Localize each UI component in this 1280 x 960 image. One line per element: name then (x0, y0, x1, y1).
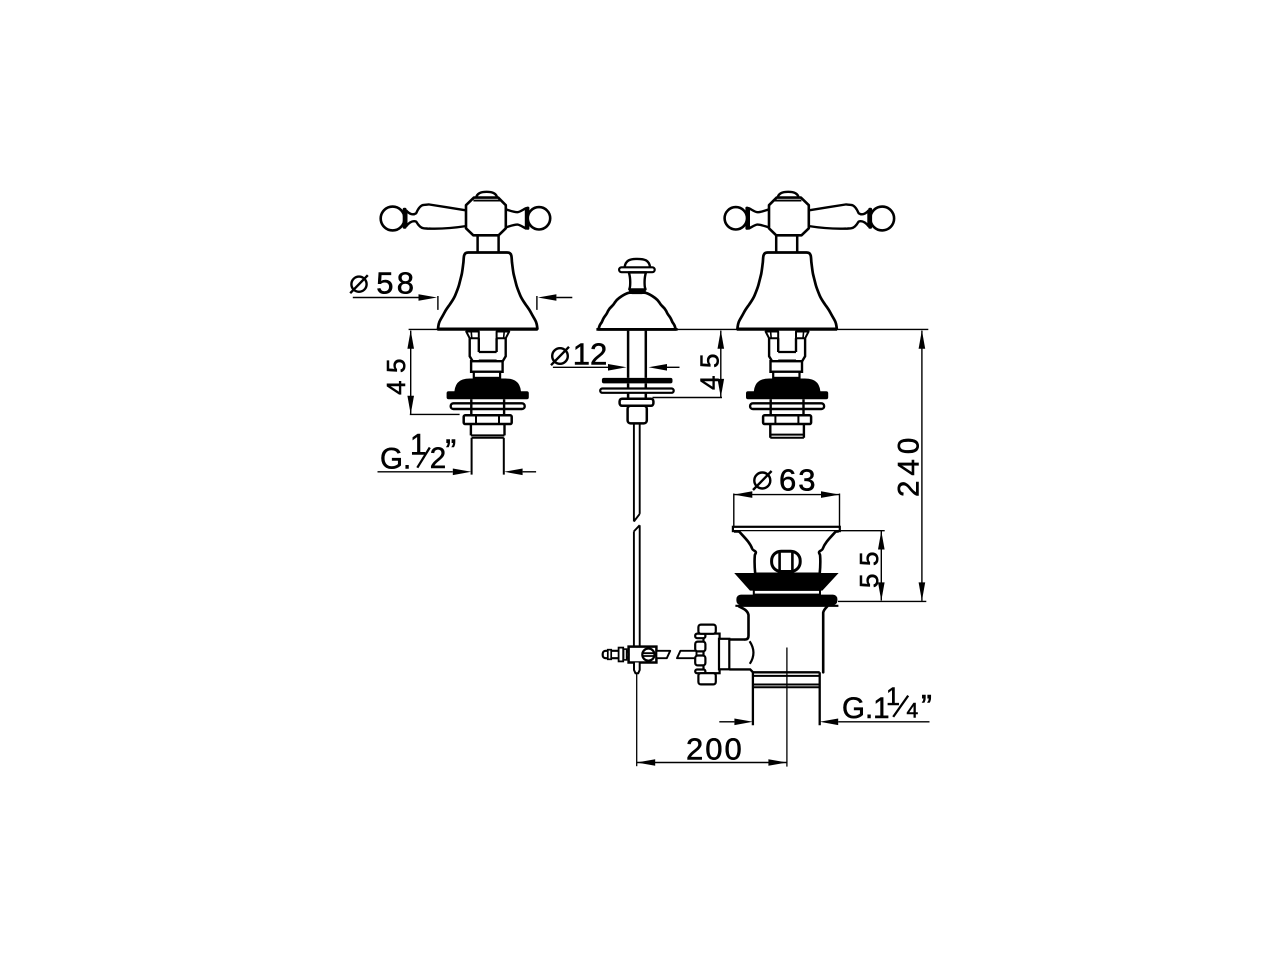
drain washer band (754, 590, 820, 595)
drain gland cylinder (719, 639, 729, 670)
svg-text:12: 12 (573, 337, 607, 372)
overflow window (772, 551, 801, 571)
drain rubber gasket (black) (735, 595, 838, 606)
pop-up rod shank (O12) (628, 331, 646, 399)
left arm spindle (406, 204, 466, 228)
left bell base line (437, 328, 537, 331)
dimension G.1/2 (378, 429, 537, 476)
small ball (725, 207, 747, 229)
right tap handle (mirrored) (725, 192, 895, 253)
lower stem block (471, 361, 503, 372)
rod clamp block (629, 647, 657, 663)
svg-text:58: 58 (376, 266, 417, 301)
dimension 45 middle (653, 330, 725, 397)
left collar ring (403, 208, 407, 229)
drain knurled nut (695, 625, 719, 685)
handle neck (776, 236, 797, 253)
right ball (528, 207, 550, 229)
hub dome cap (476, 192, 497, 198)
right tap mounting nut (763, 415, 811, 424)
left tap bell escutcheon (437, 253, 537, 330)
hub dome cap (778, 192, 799, 198)
pop-up knob dome (619, 259, 655, 290)
left ball (381, 207, 405, 231)
left tap gasket dome (black) (447, 379, 529, 399)
right tab (497, 332, 510, 339)
slot bottom bar (479, 352, 497, 361)
short collar ring (745, 207, 748, 230)
svg-text:45: 45 (694, 346, 724, 390)
drain upper body (739, 531, 836, 574)
pop-up rod escutcheon (wavy bell) (596, 293, 677, 330)
dimension 200 (637, 732, 787, 767)
left tap valve cartridge yoke (466, 332, 509, 378)
svg-text:G.1: G.1 (842, 692, 890, 725)
left tap threaded shank G.1/2 (471, 424, 505, 475)
left tap handle (381, 192, 551, 253)
left tap mounting nut (464, 415, 512, 424)
pop-up black washer (602, 378, 673, 384)
svg-text:45: 45 (381, 351, 411, 395)
svg-text:55: 55 (854, 544, 884, 588)
left ball (870, 207, 894, 231)
svg-text:4: 4 (907, 700, 919, 723)
right tap washer (750, 399, 824, 415)
short arm spindle (749, 208, 770, 228)
clamp screw (642, 649, 654, 661)
knob disc (619, 267, 655, 272)
drain centerline (786, 648, 788, 767)
clamp lower tip (634, 663, 640, 674)
stem band (474, 372, 500, 378)
dimension G.1 1/4 (719, 683, 932, 725)
dimension Ø12 (551, 337, 680, 372)
pop-up pull rod upper segment (634, 423, 640, 521)
svg-text:”: ” (445, 433, 456, 470)
drain tailpiece G.1 1/4 (753, 672, 820, 725)
knurl bottom cap (698, 673, 715, 684)
branch internal arc (750, 641, 754, 664)
svg-text:”: ” (921, 688, 932, 725)
knob stem (629, 272, 646, 289)
collar ring (868, 208, 872, 229)
drain flange Ø63 (733, 527, 840, 532)
svg-text:200: 200 (686, 732, 744, 767)
handle neck (478, 236, 499, 253)
hub cap lines (773, 200, 802, 202)
rod extension line for 200 (636, 674, 638, 767)
drain lower body (739, 606, 827, 672)
svg-text:63: 63 (779, 462, 817, 497)
svg-text:240: 240 (892, 433, 925, 497)
svg-text:G.: G. (380, 442, 411, 475)
clevis plate (619, 648, 624, 662)
right tap threaded shank (770, 424, 804, 438)
hub octagon (769, 198, 809, 236)
lever rod segment B (broken) (677, 651, 697, 658)
middle bell base line (596, 328, 677, 331)
pop-up pull rod lower segment (634, 525, 640, 646)
dimension 240 (892, 330, 925, 601)
hub cap lines (473, 200, 502, 202)
svg-text:2: 2 (430, 442, 446, 475)
lever rod segment A (broken) (656, 651, 670, 658)
dimension 55 (838, 531, 926, 602)
dimension 45 left (381, 330, 460, 414)
pop-up shank collar (628, 406, 647, 424)
pop-up retaining nut (620, 399, 654, 406)
pop-up white washer (600, 389, 674, 393)
left tab (466, 332, 479, 339)
right tap bell escutcheon (737, 253, 837, 330)
horizontal trigger rod (left) (603, 648, 629, 662)
dimension Ø58 (350, 266, 572, 310)
right collar ring (526, 207, 529, 230)
long arm spindle (808, 204, 868, 228)
right prong (497, 338, 506, 361)
dimension Ø63 (734, 462, 840, 527)
knurl top cap (698, 625, 715, 634)
drain seal cone (black) (736, 574, 837, 590)
right arm spindle (506, 208, 527, 228)
drain branch inlet (729, 640, 753, 673)
gasket base (black) (447, 391, 529, 399)
hub octagon (466, 198, 506, 236)
svg-text:1: 1 (886, 683, 900, 711)
right tap valve cartridge yoke (766, 332, 809, 378)
right tap gasket dome (black) (746, 379, 828, 399)
left prong (470, 338, 479, 361)
baseline extension line (deck line) (409, 328, 929, 330)
left tap washer (451, 399, 525, 415)
